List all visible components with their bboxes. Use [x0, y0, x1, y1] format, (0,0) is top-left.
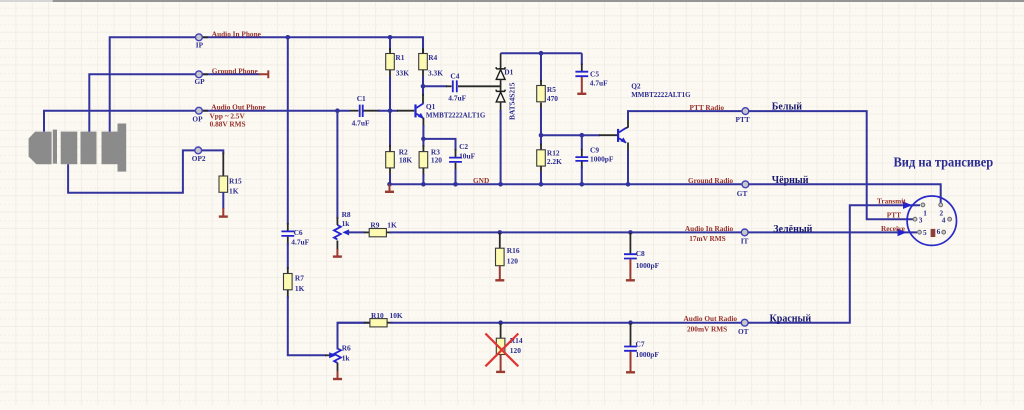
- svg-text:4.7uF: 4.7uF: [448, 94, 466, 103]
- svg-text:MMBT2222ALT1G: MMBT2222ALT1G: [631, 90, 691, 99]
- node C9 gnd: [580, 182, 585, 187]
- svg-text:4.7uF: 4.7uF: [291, 238, 309, 247]
- svg-text:17mV RMS: 17mV RMS: [689, 234, 726, 243]
- wire Зелёный net: [748, 231, 917, 233]
- node D1 gnd: [498, 182, 503, 187]
- port GT: [742, 181, 749, 188]
- svg-text:4: 4: [942, 216, 946, 225]
- port OP: [202, 110, 208, 112]
- connector P1 ring 2: [81, 132, 97, 165]
- ground below C8: [629, 259, 631, 280]
- wire IP rail right: [202, 37, 423, 54]
- DIN pin 1: [921, 203, 925, 207]
- wire C6 R7 column from IP rail: [287, 37, 289, 224]
- svg-text:OP: OP: [192, 114, 203, 123]
- pin R2 top: [389, 145, 391, 152]
- wire R2 to GND rail: [389, 174, 391, 184]
- svg-text:4.7uF: 4.7uF: [590, 78, 608, 87]
- pin R7 top: [287, 267, 289, 274]
- svg-text:R6: R6: [342, 344, 351, 353]
- wire OP2 net to ring 1: [68, 150, 195, 192]
- pin C5 top: [581, 64, 583, 72]
- svg-text:GT: GT: [737, 189, 748, 198]
- svg-text:Ground Radio: Ground Radio: [688, 176, 733, 185]
- wire R5 to R12: [540, 108, 542, 146]
- svg-text:Receive: Receive: [881, 224, 906, 233]
- diode D1 lower (BAT54S): [496, 90, 505, 112]
- pin C4 left: [446, 85, 452, 87]
- node R5 top: [539, 51, 544, 56]
- pin R12 top: [540, 144, 542, 151]
- wire GP stub right: [202, 73, 260, 75]
- resistor R16: [496, 248, 505, 266]
- wire emitter to C2: [423, 139, 455, 151]
- svg-text:IP: IP: [196, 41, 204, 50]
- port OT: [741, 319, 748, 326]
- svg-text:Чёрный: Чёрный: [772, 175, 809, 186]
- ground below R6: [337, 371, 339, 379]
- resistor R12: [537, 150, 546, 166]
- svg-text:PTT: PTT: [736, 115, 750, 124]
- svg-text:5: 5: [923, 228, 927, 237]
- svg-text:C6: C6: [294, 228, 303, 237]
- wire OP2 to R15: [202, 150, 223, 154]
- port OP2: [195, 147, 202, 154]
- pin R4 bottom: [422, 70, 424, 78]
- resistor R15: [219, 176, 228, 192]
- svg-text:1000pF: 1000pF: [590, 155, 614, 164]
- capacitor C9: [575, 157, 588, 161]
- window chrome top bar: [0, 0, 53, 2]
- pin R14 top: [500, 323, 502, 339]
- svg-text:18K: 18K: [399, 155, 412, 164]
- svg-text:Ground Phone: Ground Phone: [212, 66, 259, 75]
- node C2 gnd: [453, 182, 458, 187]
- DIN pin 3: [913, 217, 917, 221]
- wire R5 column: [540, 53, 542, 82]
- pin R6 bottom: [337, 363, 339, 372]
- node C7 top: [628, 320, 633, 325]
- svg-text:120: 120: [510, 346, 521, 355]
- svg-text:C8: C8: [636, 249, 645, 258]
- svg-text:R9: R9: [370, 220, 379, 229]
- wire Q1 emitter to R3: [422, 125, 424, 147]
- node R12 gnd: [539, 182, 544, 187]
- DIN pin 4: [948, 217, 952, 221]
- svg-text:Вид на трансивер: Вид на трансивер: [894, 154, 994, 169]
- pin R2 bottom: [389, 168, 391, 176]
- svg-text:1K: 1K: [295, 284, 305, 293]
- svg-text:R8: R8: [342, 210, 351, 219]
- GND rail: [390, 183, 743, 185]
- wire R10 row: [338, 322, 366, 324]
- ground below R14: [500, 354, 502, 371]
- wire IP net to sleeve: [110, 37, 196, 131]
- svg-text:GP: GP: [195, 77, 206, 86]
- svg-text:R16: R16: [507, 246, 520, 255]
- svg-text:D1: D1: [504, 68, 513, 77]
- svg-text:Transmit: Transmit: [877, 196, 906, 205]
- node OP row / R1 R2: [388, 108, 393, 113]
- pin R5 top: [540, 80, 542, 87]
- node C4 tap: [421, 84, 426, 89]
- DIN connector outline: [907, 196, 956, 245]
- svg-text:120: 120: [431, 155, 442, 164]
- pin Q2 base: [599, 134, 617, 136]
- wire R7 to R6 wiper: [288, 296, 326, 355]
- svg-text:470: 470: [547, 94, 558, 103]
- svg-text:6: 6: [937, 227, 941, 236]
- pin C9 bottom: [581, 162, 583, 169]
- svg-text:1000pF: 1000pF: [636, 350, 660, 359]
- pin Q2 emitter: [627, 143, 629, 153]
- capacitor C1: [360, 105, 363, 117]
- pin R9 left: [364, 231, 369, 233]
- pin C1 right to Q1 base: [364, 110, 381, 112]
- node Q2 emitter gnd: [626, 182, 631, 187]
- svg-text:1k: 1k: [342, 219, 351, 228]
- DIN key: [931, 229, 936, 237]
- svg-text:3: 3: [919, 216, 923, 225]
- wire R8 column from OP row: [336, 111, 338, 219]
- svg-text:1K: 1K: [229, 186, 239, 195]
- pin R10 right: [387, 322, 393, 324]
- pin Q1 emitter: [422, 118, 424, 127]
- pin R16 top: [499, 232, 501, 248]
- node IP rail / R1: [388, 35, 393, 40]
- node R16 top: [498, 230, 503, 235]
- DIN pin 6: [942, 230, 946, 234]
- pin R10 left: [364, 322, 370, 324]
- resistor R4: [419, 54, 428, 70]
- wire R3 to GND rail: [422, 174, 424, 184]
- svg-text:1: 1: [923, 208, 927, 217]
- node R14 top: [498, 320, 503, 325]
- wire OP net to tip: [44, 111, 196, 132]
- pin C2 top: [455, 149, 457, 157]
- svg-text:C9: C9: [590, 146, 599, 155]
- R14 deleted cross: [485, 334, 518, 367]
- svg-text:33K: 33K: [396, 68, 409, 77]
- svg-text:Красный: Красный: [770, 314, 812, 325]
- resistor R2: [386, 152, 395, 168]
- wire C9 drop: [581, 135, 583, 150]
- capacitor C5: [575, 72, 588, 77]
- wire C9 to GND rail: [581, 166, 583, 184]
- trimmer R8 body: [334, 225, 341, 239]
- svg-text:R15: R15: [229, 176, 242, 185]
- capacitor C6: [281, 231, 294, 236]
- pin C2 bottom: [455, 163, 457, 171]
- pin R3 bottom: [422, 168, 424, 176]
- port GP: [202, 73, 208, 75]
- wire C6 to R7: [287, 243, 289, 269]
- svg-text:C2: C2: [459, 142, 468, 151]
- svg-text:120: 120: [507, 257, 518, 266]
- wire top rail D1-R5-C5: [501, 52, 582, 54]
- wire R10 to OT port: [391, 322, 742, 324]
- node OP row / R8 column: [335, 108, 340, 113]
- wire D1 bottom to GND rail: [500, 110, 502, 184]
- resistor R5: [537, 86, 546, 102]
- pin C7 top: [630, 323, 632, 346]
- wire C1 to base node: [378, 110, 398, 112]
- svg-text:C1: C1: [357, 94, 366, 103]
- pin R12 bottom: [540, 166, 542, 174]
- svg-text:2.2K: 2.2K: [547, 157, 562, 166]
- ground below C7: [630, 352, 632, 372]
- svg-text:10K: 10K: [390, 311, 403, 320]
- wire C2 to GND rail: [455, 169, 457, 184]
- pin R8 top: [336, 217, 338, 225]
- arrow Transmit: [903, 201, 912, 209]
- arrow Receive: [898, 229, 907, 237]
- svg-text:Белый: Белый: [772, 101, 802, 112]
- port PTT: [742, 108, 749, 115]
- resistor R10: [370, 319, 387, 327]
- wire Q2 emitter to GND rail: [627, 150, 629, 184]
- DIN pin 2: [939, 203, 943, 207]
- pin C6 bottom: [287, 237, 289, 245]
- capacitor C7: [624, 347, 637, 351]
- svg-text:Зелёный: Зелёный: [773, 224, 812, 235]
- wire Q2 base row: [541, 134, 600, 136]
- pin Q1 base: [397, 110, 414, 112]
- connector P1 insulator bar: [53, 130, 57, 164]
- svg-text:PTT Radio: PTT Radio: [690, 103, 725, 112]
- wire R1 to R2: [389, 76, 391, 147]
- pin R3 top: [422, 145, 424, 152]
- pin R15 top: [222, 153, 224, 177]
- pin R8 bottom: [336, 241, 338, 251]
- wire Белый net: [748, 111, 913, 219]
- pin R1 bottom: [389, 70, 391, 78]
- pin R9 right: [386, 231, 392, 233]
- pin Q1 collector: [422, 94, 424, 104]
- node base tap: [539, 133, 544, 138]
- pin C1 left: [350, 110, 359, 112]
- pin R1 top: [389, 48, 391, 54]
- svg-text:1000pF: 1000pF: [636, 261, 660, 270]
- svg-text:0.88V RMS: 0.88V RMS: [210, 119, 246, 128]
- wire R6 top to R10 row: [338, 323, 371, 350]
- node C8 top: [628, 230, 633, 235]
- port IT: [741, 229, 748, 236]
- ground below R15: [222, 208, 224, 216]
- svg-text:200mV RMS: 200mV RMS: [687, 325, 727, 334]
- pin R6 wiper: [325, 354, 330, 356]
- wire Q2 collector to PTT row: [628, 111, 742, 120]
- resistor R7: [284, 274, 293, 290]
- ground below R16: [499, 266, 501, 280]
- trimmer R6 wiper arrow: [329, 352, 336, 358]
- svg-text:R7: R7: [295, 274, 304, 283]
- svg-text:Audio In Phone: Audio In Phone: [212, 29, 262, 38]
- svg-text:GND: GND: [473, 176, 489, 185]
- svg-text:1k: 1k: [342, 354, 351, 363]
- wire GP red stub end: [259, 70, 269, 78]
- node emitter / C2: [421, 137, 426, 142]
- svg-text:1K: 1K: [387, 220, 397, 229]
- capacitor C4: [453, 80, 457, 92]
- svg-text:R1: R1: [395, 53, 404, 62]
- wire R9 to IT port: [390, 231, 742, 233]
- capacitor C2: [449, 158, 462, 162]
- wire Чёрный net: [748, 184, 940, 203]
- pin C8 top: [629, 232, 631, 254]
- connector P1 ring 1: [61, 132, 78, 165]
- wire GP net to ring 2: [89, 74, 196, 131]
- transistor Q1: [414, 103, 424, 118]
- wire R4 column from IP rail: [422, 37, 424, 50]
- trimmer R6 body: [334, 349, 341, 363]
- wire R12 to GND rail: [540, 172, 542, 184]
- svg-text:IT: IT: [741, 237, 749, 246]
- wire Красный net: [748, 205, 920, 323]
- wire R1 R2 column: [389, 37, 391, 50]
- connector P1 sleeve flange: [118, 124, 127, 172]
- capacitor C8: [624, 254, 637, 258]
- resistor R14: [496, 338, 505, 354]
- connector P1 phone TRRS jack (tip): [29, 132, 52, 165]
- svg-text:R5: R5: [547, 85, 556, 94]
- wire OP row to C1: [202, 110, 350, 112]
- svg-text:OP2: OP2: [192, 154, 206, 163]
- svg-text:R10: R10: [371, 311, 384, 320]
- resistor R3: [419, 152, 428, 168]
- ground below R8: [336, 249, 338, 256]
- wire R15 to ground: [222, 192, 224, 209]
- wire C4 node to C4: [423, 85, 447, 87]
- wire C5 drop from top rail: [581, 53, 583, 65]
- resistor R1: [386, 54, 395, 70]
- node R3 gnd: [421, 182, 426, 187]
- trimmer R8 wiper arrow: [342, 229, 349, 235]
- resistor R9: [369, 229, 386, 237]
- node IP rail / C6 column: [286, 35, 291, 40]
- DIN pin 5: [918, 230, 922, 234]
- svg-text:10uF: 10uF: [459, 151, 476, 160]
- diode D1 upper (BAT54S): [496, 53, 505, 91]
- connector P1 sleeve: [102, 132, 118, 165]
- svg-text:3.3K: 3.3K: [428, 68, 443, 77]
- pin C6 top: [287, 223, 289, 231]
- pin R7 bottom: [287, 290, 289, 298]
- svg-text:C7: C7: [636, 340, 645, 349]
- svg-text:PTT: PTT: [887, 211, 901, 220]
- svg-text:Audio Out Phone: Audio Out Phone: [211, 103, 266, 112]
- pin R5 bottom: [540, 103, 542, 110]
- svg-text:R4: R4: [428, 53, 437, 62]
- svg-text:BAT54S215: BAT54S215: [508, 82, 517, 120]
- node C9 top: [580, 133, 585, 138]
- pin C4 right wire to D1: [458, 85, 501, 87]
- wire R9 row from R8 wiper: [348, 231, 366, 233]
- pin Q2 collector: [626, 118, 628, 128]
- ground below C5: [581, 77, 583, 93]
- pin C9 top: [581, 149, 583, 157]
- port IP: [202, 36, 208, 38]
- ground symbol on rail left end: [387, 182, 392, 187]
- svg-text:OT: OT: [738, 327, 749, 336]
- wire R4 to C4 node and Q1 collector: [422, 76, 424, 96]
- svg-text:C5: C5: [590, 69, 599, 78]
- pin R4 top: [422, 48, 424, 54]
- svg-text:C4: C4: [450, 71, 459, 80]
- svg-text:MMBT2222ALT1G: MMBT2222ALT1G: [426, 111, 486, 120]
- transistor Q2: [617, 128, 627, 143]
- svg-text:4.7uF: 4.7uF: [352, 118, 370, 127]
